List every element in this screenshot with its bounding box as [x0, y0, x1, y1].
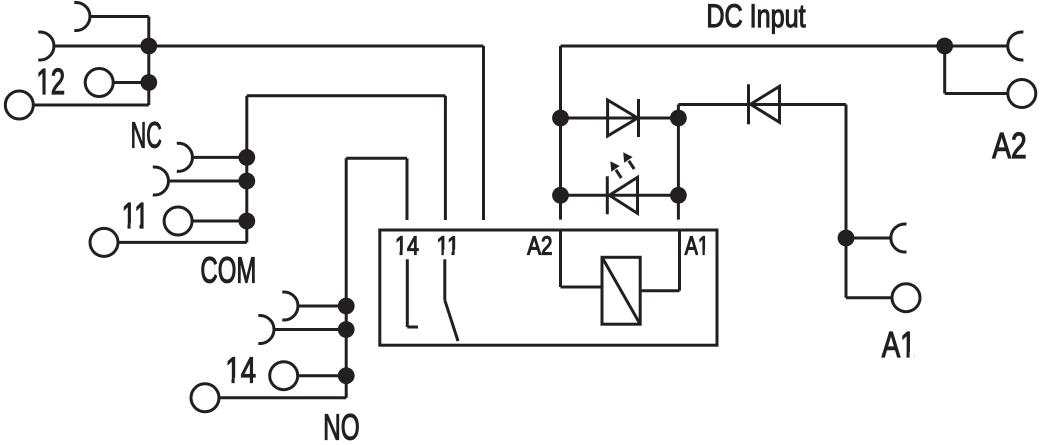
svg-text:A2: A2: [992, 125, 1026, 166]
svg-text:NC: NC: [131, 115, 162, 156]
svg-text:COM: COM: [200, 249, 256, 290]
svg-text:DC Input: DC Input: [706, 0, 805, 34]
svg-text:A2: A2: [527, 233, 552, 261]
svg-text:NO: NO: [323, 407, 360, 445]
